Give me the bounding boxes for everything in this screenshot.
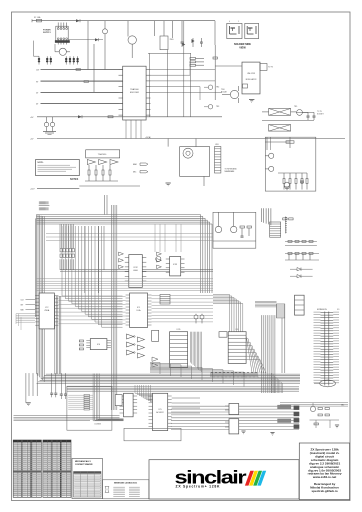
wire mid verticals [168, 139, 204, 187]
svg-text:ZX Spectrum+ 128K: ZX Spectrum+ 128K [176, 485, 221, 489]
op-amp A2 [99, 160, 107, 165]
transistor TR2a video [204, 85, 219, 89]
table contact wafer [74, 472, 102, 498]
transistor TR5 [294, 106, 308, 115]
bus lower second band [67, 387, 299, 392]
op-amp IC6 ram multiplexer [228, 329, 246, 363]
capacitor C30 C31 [262, 111, 324, 121]
resistor row B right [285, 253, 319, 261]
op-amp IC31 TEA2000 colour encoder [119, 66, 151, 120]
resistor network tape [278, 173, 308, 190]
svg-text:TO TV: TO TV [268, 67, 274, 69]
wire sound outputs [172, 398, 200, 413]
ground right io [335, 425, 339, 428]
resistor row A right [285, 241, 317, 246]
op-amp IC34 TBA820 audio [86, 150, 120, 158]
ground modulator [249, 99, 254, 102]
svg-text:CLK: CLK [21, 299, 25, 301]
resistor pair keypad [283, 218, 293, 220]
svg-text:I/O: I/O [337, 309, 340, 311]
op-amp IC14 buffer B [225, 419, 239, 434]
wire horizontal pair y270 [60, 270, 213, 272]
op-amp IC11 io decode [120, 393, 138, 417]
capacitor pair right of ULA [194, 314, 204, 324]
diode D5 [192, 38, 195, 47]
jack socket J2 MIC [133, 171, 148, 174]
svg-text:NOTES: NOTES [70, 178, 79, 181]
bus ram ctrl horizontal [255, 300, 277, 302]
svg-text:MECHANICALLY: MECHANICALLY [75, 460, 91, 463]
resistor R5 on rail [76, 69, 89, 83]
label cpu pins [21, 299, 36, 311]
resistor network R20-R23 [190, 58, 204, 67]
keyboard area box [67, 386, 112, 430]
svg-text:TEA2000: TEA2000 [130, 88, 139, 91]
op-amp IC7 small latch [219, 332, 227, 338]
modulator UM1233 [242, 62, 274, 94]
op-amp IC36 flipflop [152, 330, 159, 341]
diode D6 [182, 43, 185, 46]
wire cpu to ula data [58, 297, 125, 324]
wire rail y53 [148, 21, 191, 117]
bus staircase to ram band [150, 363, 244, 387]
cassette interface enclosure [265, 137, 316, 191]
title box [149, 460, 299, 499]
svg-text:+5V(A): +5V(A) [145, 136, 151, 139]
svg-text:0V: 0V [36, 103, 39, 105]
svg-text:CONTACT WAFER: CONTACT WAFER [75, 463, 93, 466]
capacitor pair bottom left [50, 373, 57, 397]
resistor R13 [213, 57, 217, 59]
connector expansion edge [314, 308, 340, 385]
svg-text:BC548: BC548 [221, 92, 227, 94]
resistor group audio [85, 165, 118, 181]
svg-text:NMI: NMI [21, 309, 25, 311]
op-amp A1 [87, 160, 95, 165]
transistor TR1 regulator [55, 48, 70, 55]
svg-text:12V: 12V [36, 69, 40, 71]
info box [299, 443, 349, 500]
svg-text:+12V: +12V [30, 189, 35, 191]
bus keyboard vertical to corner [93, 374, 123, 426]
transistor Z80 cpu IC2 [35, 293, 58, 329]
resistor capacitor cluster reset [213, 226, 256, 241]
svg-text:TO TV: TO TV [317, 111, 323, 113]
wire single verticals mid [85, 226, 104, 293]
svg-text:EAR: EAR [133, 163, 137, 166]
connector video out block [160, 295, 170, 305]
wire rail +5V [36, 92, 123, 94]
wire analog-digital links [105, 195, 108, 215]
svg-text:MEMBRANE: MEMBRANE [225, 170, 236, 173]
bus corner top right [200, 215, 213, 294]
wire long vertical x35.6 [35, 218, 37, 317]
bus address vertical left [37, 215, 45, 382]
resistor cluster left of IC4 [79, 340, 83, 350]
svg-text:NOTE:: NOTE: [38, 162, 44, 164]
bracket below sound [124, 428, 181, 441]
svg-text:7805: 7805 [170, 39, 174, 41]
transistor TR2 [128, 21, 136, 58]
resistor cluster right io [310, 408, 340, 429]
sinclair logo [175, 466, 247, 487]
capacitor C10 [200, 38, 203, 47]
gate lower pair [152, 357, 158, 367]
termination staircase row [211, 373, 259, 378]
svg-text:KB1: KB1 [215, 144, 218, 146]
wire +5V main rail [30, 139, 345, 141]
bus data horizontal main [37, 214, 200, 216]
bus vertical ram bundle [260, 315, 262, 393]
wire +9V distribution rail [30, 117, 222, 119]
mechanical contact wafer box [72, 459, 103, 499]
title subtext ZX Spectrum+ 128K [176, 485, 221, 489]
transistor TR9 [231, 212, 237, 232]
label mic out [341, 404, 345, 406]
wire keyboard rows horizontal [14, 416, 120, 421]
wire connector to caps [34, 41, 56, 57]
wire tape top [265, 137, 294, 148]
bus io mid horizontal band [171, 406, 299, 429]
connector hatched ram [277, 304, 285, 318]
regulator IC7 7805 [154, 21, 173, 50]
wire rail 0V [36, 103, 123, 105]
op-amp IC12 small [115, 395, 122, 406]
svg-text:VIEW: VIEW [239, 47, 246, 50]
wire ula right pins out [152, 296, 214, 322]
wire keypad bundle [261, 208, 271, 225]
svg-text:IC6: IC6 [236, 329, 239, 331]
transistor TR8 [215, 212, 221, 232]
ground audio [166, 183, 171, 186]
logo stripe red [245, 471, 254, 486]
resistor array RP1 [60, 249, 74, 258]
table component list A [13, 440, 41, 497]
gate column G1 [127, 334, 136, 355]
svg-text:4: 4 [229, 21, 230, 23]
op-amp IC1 ULA [126, 293, 152, 328]
transistor TR11 [310, 403, 315, 412]
svg-text:LK/DB3: LK/DB3 [95, 424, 101, 426]
connector memory select [170, 329, 188, 368]
connector keyboard membrane tail [215, 144, 238, 173]
ground bottom mid [241, 431, 245, 434]
wire audio rail [30, 186, 140, 191]
NOTES box [36, 160, 80, 181]
wire encoder bottom pins [126, 120, 141, 139]
svg-text:INT: INT [21, 304, 24, 306]
svg-text:MEMBRANE LAMBDA 8302: MEMBRANE LAMBDA 8302 [114, 481, 137, 484]
connector keypad [270, 222, 281, 237]
wire rail +12V [36, 69, 123, 71]
svg-text:TR2: TR2 [216, 87, 219, 89]
ground bottom mid 2 [270, 432, 274, 435]
connector block column dark [294, 406, 300, 429]
wire encoder right pins [151, 62, 223, 100]
connector IC ram ctrl [295, 295, 305, 315]
keyboard sub-enclosure [180, 147, 210, 177]
wire modulator input [215, 45, 242, 100]
wire horizontals under 4066 [37, 279, 214, 291]
svg-text:+9V: +9V [30, 117, 34, 119]
svg-text:ULA: ULA [137, 309, 142, 312]
svg-text:SUPPLY: SUPPLY [43, 32, 51, 34]
bus bottom main band [37, 374, 301, 383]
capacitor tape C40 [300, 181, 304, 182]
svg-text:Z80A: Z80A [44, 309, 49, 312]
capacitor bank C1-C7 [38, 56, 79, 64]
bus ram fan curve [246, 335, 266, 373]
connector edge top-left ticks [39, 201, 50, 210]
loudspeaker LS1 [314, 380, 336, 387]
transistor TR8 tape [284, 182, 289, 187]
ground bottom left [26, 403, 31, 406]
svg-text:TR5: TR5 [294, 106, 297, 108]
svg-text:UM-1233: UM-1233 [247, 73, 255, 75]
logo stripe yellow [249, 471, 258, 486]
op-amp IC32 4066 [125, 255, 147, 288]
op-amp A3 [110, 160, 118, 165]
gate cluster right of 4066 [157, 252, 162, 269]
connector ticks right [285, 216, 287, 233]
label +5V(A) [145, 136, 151, 139]
svg-text:MODULATOR: MODULATOR [246, 78, 257, 81]
capacitor pair bottom left 2 [60, 373, 67, 399]
wire verticals top [172, 21, 215, 45]
op-amp IC13 buffer A [225, 404, 239, 415]
wire keyboard columns [26, 373, 37, 403]
fuse F1 [34, 16, 42, 22]
membrane table box [103, 480, 149, 499]
resistor R30 [108, 116, 113, 118]
SOLDER SIDE VIEW label [234, 43, 251, 49]
svg-text:MIC: MIC [133, 172, 137, 174]
svg-text:ENCODER: ENCODER [130, 92, 140, 94]
svg-text:9V: 9V [36, 81, 39, 83]
svg-text:TR3: TR3 [216, 106, 219, 108]
label hatched B [277, 419, 291, 423]
wire vertical feed [88, 21, 94, 93]
svg-text:IC35: IC35 [177, 329, 181, 331]
wire vertical pair right [282, 318, 285, 373]
POWER SUPPLY label [43, 30, 51, 35]
svg-text:TDA7050: TDA7050 [98, 153, 107, 156]
bus ram top horizontal [213, 295, 243, 332]
gate column G2 [138, 337, 145, 358]
transistor TR7 [265, 166, 274, 171]
resistor array RP2 keyboard [68, 395, 93, 411]
label hatched A [277, 405, 291, 409]
op-amp IC5 AY-3-8912 sound [149, 393, 172, 430]
svg-text:SOCKET: SOCKET [317, 113, 324, 115]
svg-text:EXPANSION: EXPANSION [317, 308, 328, 311]
logo stripe green [253, 471, 262, 486]
wire band to reset box [46, 234, 213, 241]
wire rail +9V [36, 81, 123, 83]
svg-text:5V: 5V [36, 92, 39, 94]
transistor TR6 [265, 137, 274, 158]
crystal X2 4.43MHz [262, 109, 296, 116]
svg-text:F1 1.6A: F1 1.6A [34, 16, 41, 19]
capacitor C9 [181, 38, 184, 47]
svg-text:+5V: +5V [30, 139, 34, 141]
wire encoder left pins [41, 70, 119, 104]
bus right io horizontal [280, 403, 348, 406]
transistor TR3a video [204, 105, 219, 109]
svg-text:1: 1 [238, 21, 239, 23]
transistor TR4 video driver [221, 86, 239, 103]
gate cluster left of 4066 [119, 252, 124, 269]
bus address fan from cpu [62, 226, 123, 327]
wire cpu left cluster [16, 314, 35, 330]
bus corner fan right of memory connector [190, 332, 201, 372]
connector PL1 power [55, 23, 70, 45]
op-amp IC4 rom decode [86, 339, 111, 350]
diode D9 [78, 115, 82, 118]
bus cpu data down [54, 296, 56, 374]
bus vertical bundle x111 [110, 205, 112, 410]
connector solder side view box 1 [227, 21, 242, 39]
logo stripe cyan [257, 471, 266, 486]
jack socket J1 EAR [133, 163, 148, 166]
ground tape [284, 187, 290, 190]
op-amp IC33 small [166, 257, 185, 276]
bus vertical second [60, 224, 74, 270]
wire band drops to 4066 [155, 224, 181, 252]
transistor TR10 [156, 256, 161, 261]
diode pair D11 D12 [290, 268, 313, 278]
diode D1 [76, 19, 80, 22]
svg-text:www.zx81.io.net: www.zx81.io.net [312, 475, 336, 479]
svg-text:IC33: IC33 [173, 264, 177, 266]
wire top supply rail [32, 19, 215, 22]
bus fan into sound chip [135, 385, 153, 402]
reset circuit enclosure [213, 212, 256, 248]
transistor TR3 [69, 21, 108, 70]
connector solder side view box 2 [245, 23, 259, 38]
crystal X3 [269, 125, 291, 132]
capacitor C12 C13 smoothing [43, 117, 56, 135]
bus bend right bottom [272, 373, 283, 393]
svg-text:spectrek.github.io: spectrek.github.io [311, 489, 337, 493]
table component list B [43, 440, 71, 497]
